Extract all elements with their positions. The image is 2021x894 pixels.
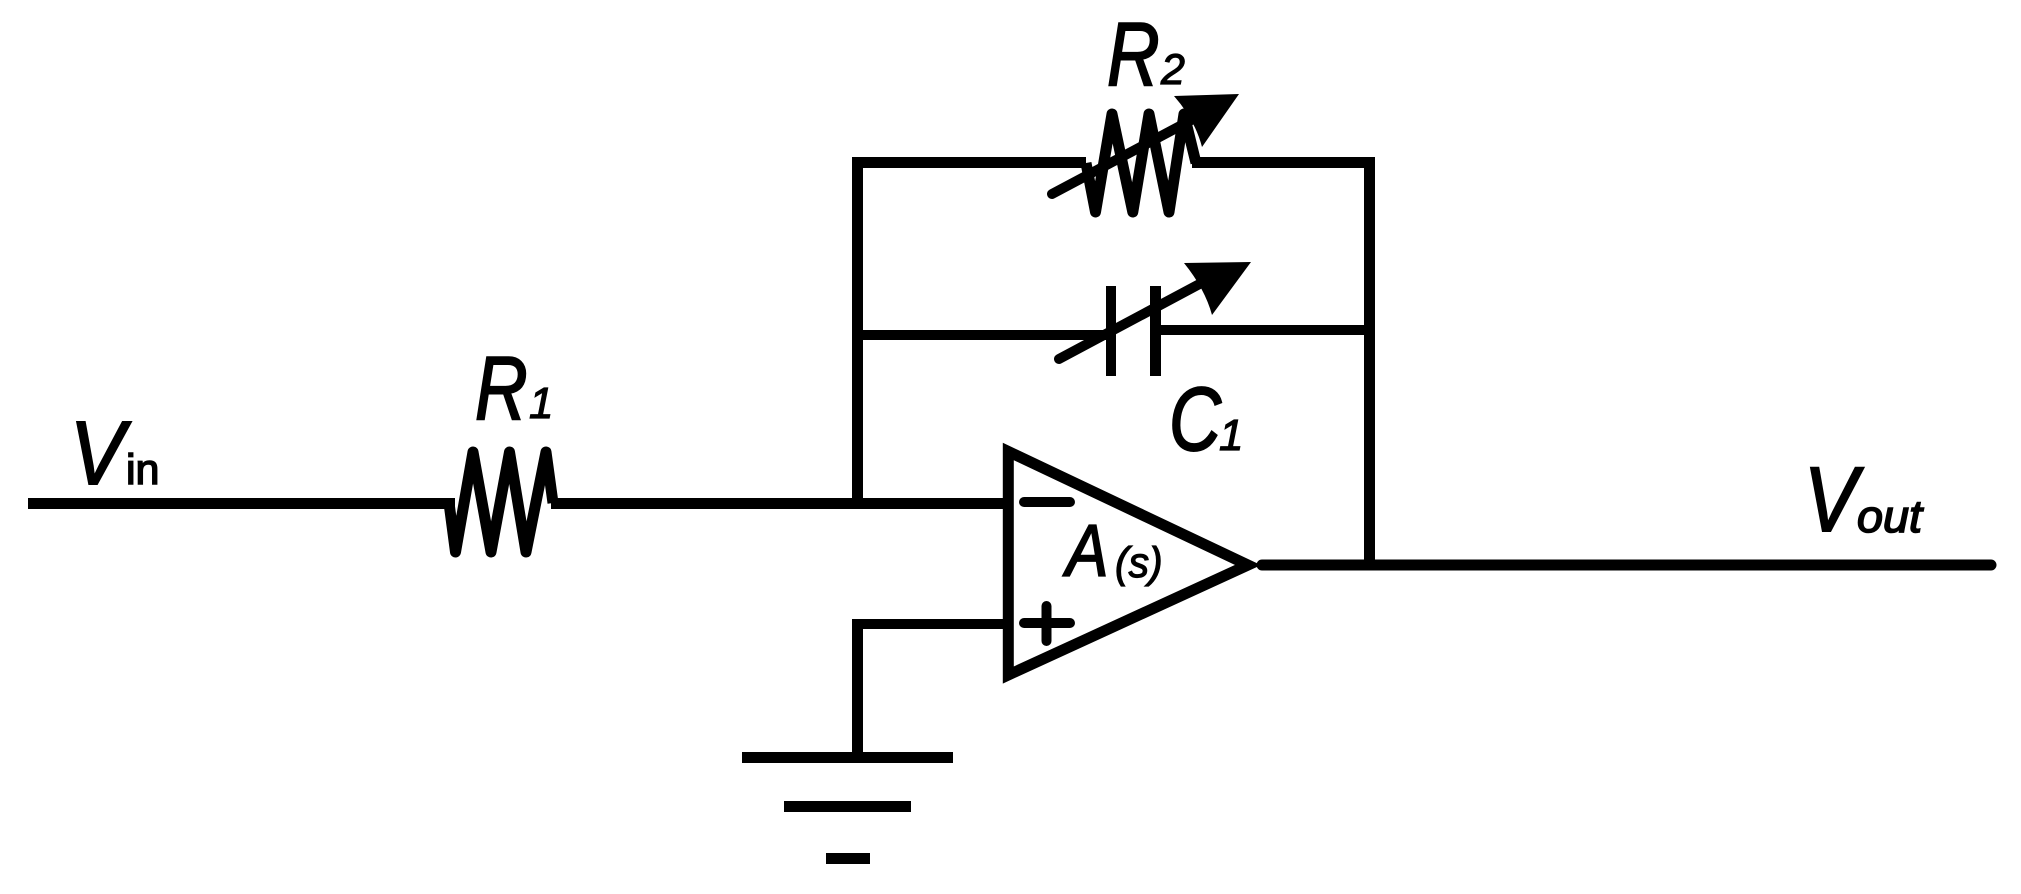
svg-text:R: R bbox=[475, 339, 528, 439]
wire: right feedback vertical bbox=[1364, 157, 1375, 570]
wire: R1 to inverting input bbox=[551, 498, 1008, 509]
svg-text:V: V bbox=[1804, 449, 1864, 551]
svg-text:1: 1 bbox=[529, 379, 553, 428]
resistor R2 (variable) bbox=[1086, 114, 1196, 212]
capacitor C1 right plate bbox=[1150, 286, 1161, 376]
wire: output bbox=[1262, 560, 1991, 571]
svg-text:2: 2 bbox=[1160, 46, 1185, 94]
arrow through C1 bbox=[1059, 262, 1251, 359]
wire: top rail left segment bbox=[852, 157, 1086, 168]
svg-text:R: R bbox=[1107, 5, 1160, 105]
label R1 bbox=[475, 339, 553, 439]
svg-text:in: in bbox=[126, 446, 159, 494]
svg-text:C: C bbox=[1169, 369, 1222, 469]
svg-text:V: V bbox=[70, 403, 132, 503]
ground symbol bbox=[742, 752, 953, 864]
svg-text:A: A bbox=[1062, 511, 1108, 592]
wire: C1 branch left segment bbox=[852, 330, 1108, 340]
wire: ground vertical bbox=[852, 620, 863, 757]
op-amp inverting pin mark (minus) bbox=[1024, 497, 1070, 507]
wire: C1 branch right segment bbox=[1158, 325, 1375, 335]
svg-text:1: 1 bbox=[1219, 411, 1243, 460]
wire: top rail right segment bbox=[1192, 157, 1375, 168]
capacitor C1 left plate bbox=[1106, 286, 1116, 376]
svg-text:out: out bbox=[1857, 491, 1924, 542]
svg-text:(s): (s) bbox=[1115, 538, 1163, 586]
label C1 bbox=[1169, 369, 1243, 469]
resistor R1 bbox=[449, 452, 553, 552]
wire: left feedback vertical (node A) bbox=[852, 157, 863, 508]
op-amp U1 triangle bbox=[1008, 452, 1248, 676]
label Vout bbox=[1804, 449, 1924, 551]
label A(s) bbox=[1062, 511, 1162, 592]
arrow through R2 bbox=[1052, 94, 1239, 194]
node Vin label bbox=[70, 403, 159, 503]
wire: non-inverting input horizontal bbox=[852, 619, 1004, 629]
op-amp non-inverting pin mark (plus) bbox=[1024, 606, 1070, 641]
label R2 bbox=[1107, 5, 1185, 105]
wire: Vin input lead bbox=[28, 498, 455, 509]
